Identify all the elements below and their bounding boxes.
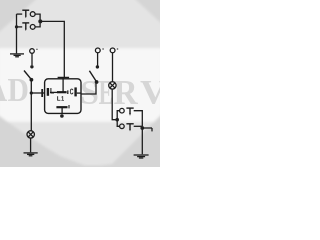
internal tick <box>68 105 70 108</box>
flasher left pin T-bar <box>41 89 43 97</box>
watermark letter A <box>0 79 7 101</box>
node S4 input <box>115 118 119 122</box>
wire lead to contact 1 <box>17 13 23 15</box>
node S3 lower <box>95 80 99 84</box>
terminal B tick <box>117 48 118 49</box>
switch S4 contact c T-bar <box>126 108 133 114</box>
node right bus <box>140 126 144 130</box>
node S2 upper <box>30 65 33 68</box>
wire terminal to switch S2 <box>31 53 33 65</box>
wire from contact a to node <box>35 14 40 21</box>
ground G1 <box>10 54 24 57</box>
terminal X1 circle <box>30 49 35 54</box>
node S2 lower <box>30 78 34 82</box>
wire node to contact c <box>117 111 119 120</box>
right bus down <box>141 126 143 154</box>
wire junction to flasher left pin <box>31 92 44 94</box>
flasher unit U1 box <box>45 79 81 114</box>
background outside watermark plate <box>0 0 160 167</box>
wire lead to contact 2 <box>17 26 23 28</box>
lamp LA1 <box>27 131 34 138</box>
switch S4 contact d terminal circle <box>120 124 125 129</box>
lamp LA2 <box>109 82 116 89</box>
switch S1 contact a T-bar <box>22 10 29 16</box>
wire from contact b to node <box>35 21 40 27</box>
switch S2 lever <box>24 71 31 80</box>
watermark letter D <box>8 79 28 101</box>
wire terminal B to lamp LA2 <box>112 53 114 82</box>
label L <box>50 88 54 94</box>
node S3 upper <box>96 65 99 68</box>
node switch output <box>38 19 42 23</box>
coil bar right <box>74 87 76 96</box>
flasher top pin <box>62 78 64 92</box>
label C <box>70 89 74 95</box>
terminal A circle <box>95 48 100 53</box>
watermark white band <box>0 48 165 122</box>
switch S1 contact b T-bar <box>22 23 29 29</box>
wire contact d to right bus <box>134 125 143 127</box>
flasher right pin wire to switch S3 <box>81 82 96 94</box>
coil bar left <box>47 88 49 96</box>
switch S4 contact c terminal circle <box>120 108 125 113</box>
wire branch right <box>142 127 152 129</box>
watermark plate <box>0 0 162 166</box>
wire contact c to right bus <box>134 111 143 127</box>
ground G2 <box>24 153 38 156</box>
wire node to flasher top <box>40 21 64 77</box>
flasher top pin T-bar <box>58 77 70 79</box>
wire lamp LA2 down to switch S4 node <box>112 89 117 119</box>
wire left bus vertical <box>16 14 18 53</box>
internal rail <box>50 91 57 93</box>
terminal X1 tick <box>36 49 37 50</box>
watermark letter S <box>82 81 98 104</box>
coil bar2 <box>56 106 67 108</box>
wire lamp to ground <box>30 138 32 152</box>
node junction to flasher left pin <box>30 91 33 94</box>
coil bar1 <box>57 91 67 93</box>
ground G3 <box>134 155 149 158</box>
bottom pin <box>61 107 63 114</box>
switch S4 contact d T-bar <box>126 124 133 130</box>
bottom pin arrow <box>60 114 64 118</box>
watermark letter E <box>99 81 112 104</box>
wire S3 to terminal A <box>97 53 99 66</box>
node junction on left bus <box>15 25 18 28</box>
label L1 <box>57 96 60 100</box>
watermark letters <box>0 79 167 104</box>
internal rail right <box>77 92 81 94</box>
watermark letter V <box>141 81 167 104</box>
contact nub <box>67 90 69 94</box>
terminal B circle <box>110 48 115 53</box>
switch S1 contact a terminal circle <box>30 12 35 17</box>
watermark letter R <box>114 81 138 104</box>
terminal A tick <box>102 48 103 49</box>
switch S1 contact b terminal circle <box>30 25 35 30</box>
switch S3 lever <box>89 71 96 82</box>
branch end tick <box>151 128 153 131</box>
wire node to contact d <box>117 120 119 127</box>
wire S2 to lamp junction <box>30 80 32 131</box>
